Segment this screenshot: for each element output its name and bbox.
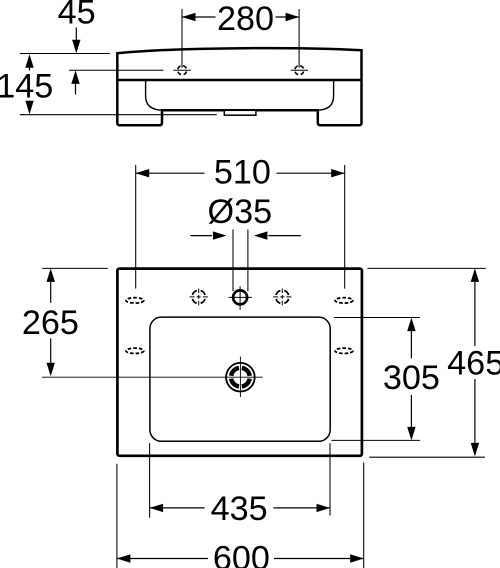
svg-text:435: 435 (211, 490, 268, 528)
svg-text:265: 265 (22, 304, 79, 342)
svg-text:305: 305 (383, 359, 440, 397)
svg-text:45: 45 (58, 0, 96, 32)
svg-text:465: 465 (447, 345, 500, 383)
svg-text:280: 280 (217, 0, 274, 38)
svg-text:145: 145 (0, 68, 53, 106)
svg-text:600: 600 (213, 540, 270, 568)
svg-text:Ø35: Ø35 (207, 193, 272, 231)
svg-text:510: 510 (214, 153, 271, 191)
